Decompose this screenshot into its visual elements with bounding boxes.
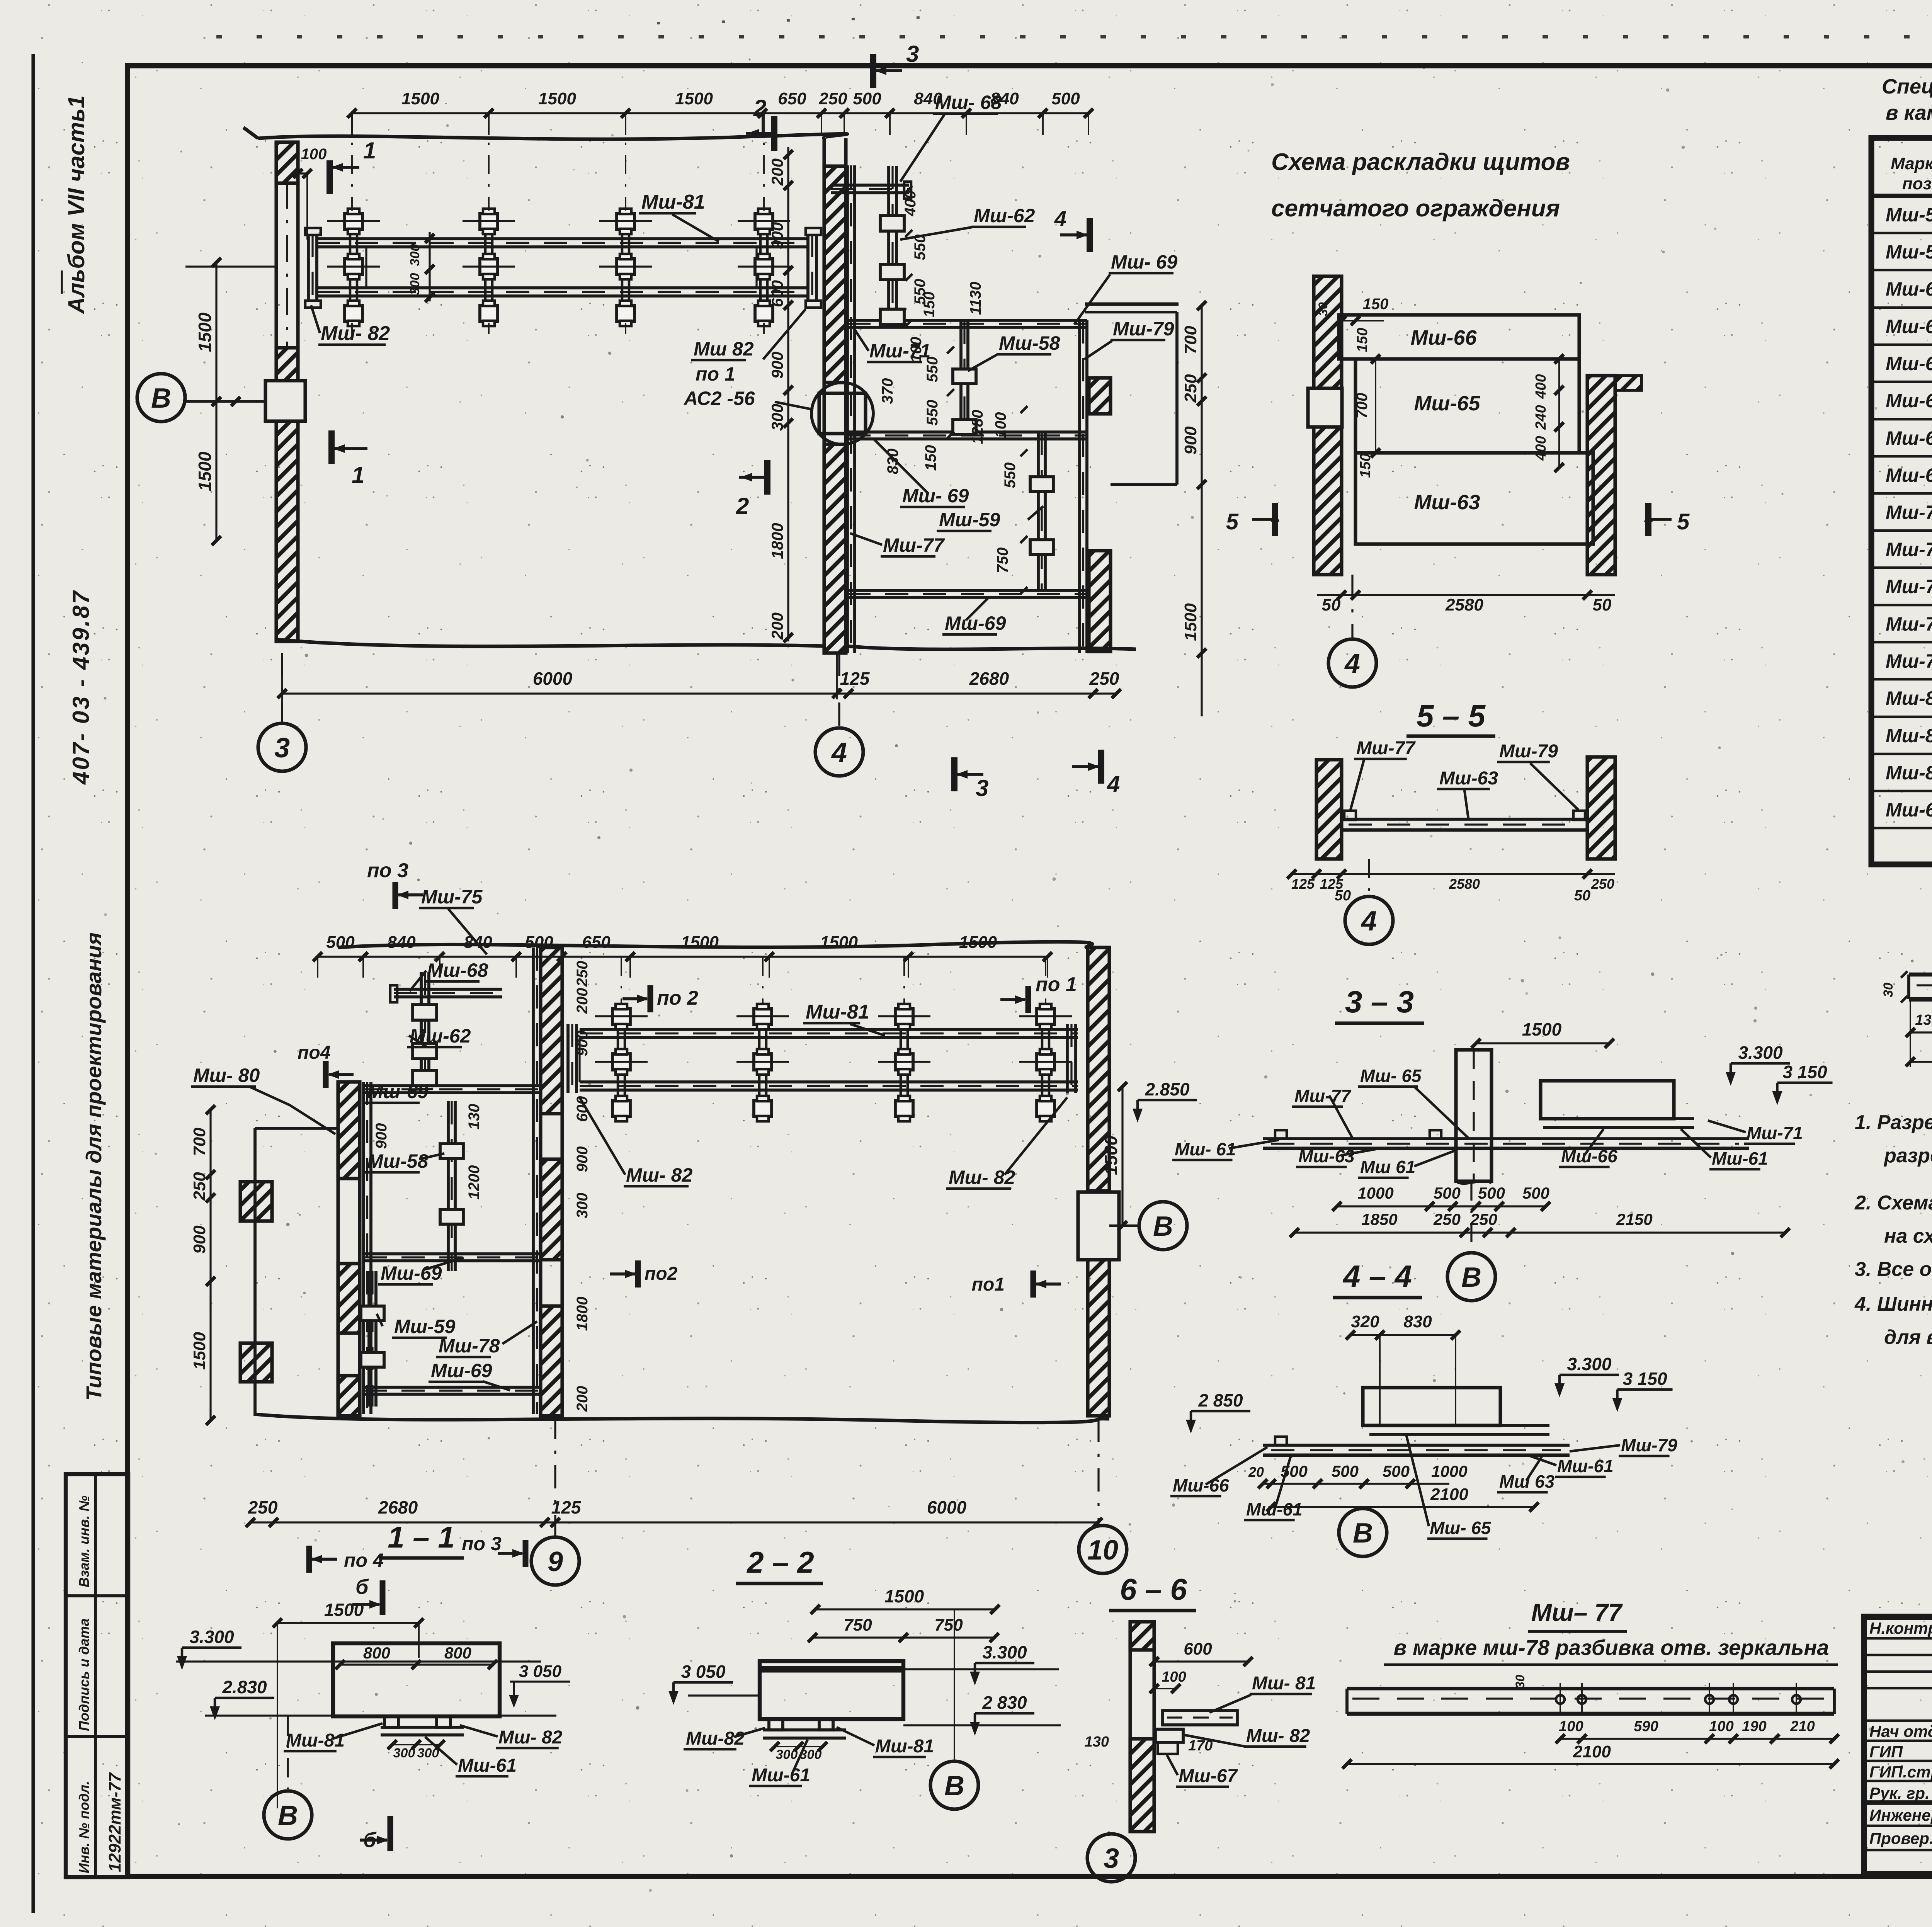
svg-text:650: 650: [778, 89, 806, 108]
bottom dim row drawing 1: [282, 692, 1116, 694]
svg-text:30: 30: [1316, 302, 1330, 316]
svg-text:100: 100: [1162, 1669, 1186, 1685]
svg-text:3 – 3: 3 – 3: [1345, 985, 1414, 1019]
svg-text:300: 300: [417, 1746, 439, 1760]
section 6-6 wall: [1128, 1622, 1132, 1832]
svg-text:750: 750: [844, 1616, 872, 1634]
svg-text:300: 300: [408, 244, 422, 266]
section 6-6 axis circle 3: [1108, 1832, 1110, 1836]
top dimension chain drawing 1: [352, 112, 1088, 114]
svg-text:700: 700: [1181, 326, 1200, 354]
svg-text:900: 900: [574, 1031, 591, 1056]
svg-text:в камере реактора и коридор: в камере реактора и коридоре у оси 4 и 9: [1886, 101, 1932, 124]
axis B circle: [137, 374, 185, 422]
svg-text:900: 900: [1181, 426, 1200, 455]
svg-text:Мш-61: Мш-61: [1246, 1499, 1303, 1519]
svg-text:1800: 1800: [574, 1297, 591, 1331]
svg-text:Мш-79: Мш-79: [1886, 650, 1932, 672]
svg-text:250: 250: [248, 1497, 278, 1517]
svg-text:Мш- 80: Мш- 80: [193, 1065, 260, 1086]
svg-text:по 3: по 3: [462, 1533, 502, 1555]
section flag 4 top right: [1087, 218, 1093, 252]
svg-text:130: 130: [1085, 1734, 1109, 1750]
svg-text:4: 4: [1107, 771, 1120, 797]
svg-text:650: 650: [582, 933, 611, 952]
svg-text:4: 4: [1344, 648, 1360, 679]
svg-text:Мш-63: Мш-63: [1886, 316, 1932, 337]
svg-text:АС2 -56: АС2 -56: [683, 388, 755, 409]
drawing 2 top dim chain: [318, 956, 1048, 958]
beam MSh-79 dimension row: [1910, 1031, 1932, 1033]
svg-text:370: 370: [879, 378, 896, 404]
svg-text:1500: 1500: [820, 933, 858, 952]
svg-text:Инженер: Инженер: [1869, 1806, 1932, 1824]
svg-text:500: 500: [1383, 1462, 1410, 1480]
fence bracket MSh-68 drawing 2: [394, 988, 502, 991]
insulators drawing 2: [617, 1005, 619, 1119]
svg-text:900: 900: [574, 1146, 591, 1172]
svg-text:Мш-65: Мш-65: [1886, 353, 1932, 374]
svg-text:300: 300: [574, 1193, 591, 1219]
svg-text:Мш-77: Мш-77: [883, 534, 945, 556]
svg-text:Мш-61: Мш-61: [752, 1765, 810, 1786]
svg-text:Мш-79: Мш-79: [1621, 1435, 1677, 1455]
section 3-3 column: [1456, 1050, 1492, 1181]
svg-text:Мш-61: Мш-61: [1712, 1148, 1768, 1168]
svg-text:Мш-59: Мш-59: [394, 1316, 456, 1337]
svg-text:1500: 1500: [675, 89, 713, 108]
svg-text:1500: 1500: [324, 1600, 364, 1620]
svg-text:550: 550: [912, 235, 929, 260]
svg-text:по1: по1: [972, 1274, 1005, 1295]
svg-text:Мш-62: Мш-62: [410, 1025, 471, 1047]
svg-text:200: 200: [768, 158, 786, 186]
bottom wavy boundary drawing 1: [277, 639, 824, 646]
wall axis 3 (left, hatched): [274, 142, 278, 641]
section flag 2 bottom: [764, 460, 770, 495]
plan drawing 1 : top boundary wavy wall line: [258, 134, 847, 139]
bus bridge rails drawing 1: [317, 237, 808, 240]
svg-text:Мш-69: Мш-69: [381, 1262, 442, 1284]
svg-text:400: 400: [902, 190, 919, 217]
svg-text:Мш-67: Мш-67: [1179, 1766, 1238, 1786]
svg-text:Мш-68: Мш-68: [427, 959, 488, 981]
extra speckles: [1264, 1075, 1268, 1079]
svg-text:по 4: по 4: [344, 1549, 384, 1571]
section 5-5 axis circle 4: [1368, 859, 1370, 896]
svg-text:900: 900: [373, 1123, 390, 1149]
section 2-2 panel: [760, 1661, 903, 1719]
section 4-4 panel: [1363, 1388, 1500, 1425]
svg-text:Мш-71: Мш-71: [1886, 502, 1932, 523]
svg-text:Подпись и дата: Подпись и дата: [76, 1618, 92, 1731]
svg-text:В: В: [278, 1800, 298, 1831]
svg-text:2580: 2580: [1445, 595, 1483, 614]
svg-text:900: 900: [768, 352, 786, 379]
svg-text:3 050: 3 050: [681, 1662, 726, 1682]
svg-text:6000: 6000: [533, 668, 573, 689]
svg-text:210: 210: [1790, 1718, 1815, 1735]
svg-text:1500: 1500: [195, 451, 215, 491]
svg-text:500: 500: [1434, 1184, 1461, 1202]
svg-text:1500: 1500: [1101, 1135, 1121, 1175]
svg-text:Схема раскладки щитов: Схема раскладки щитов: [1271, 149, 1570, 175]
detail circle AC2-56: [811, 383, 873, 444]
svg-text:50: 50: [1322, 595, 1341, 614]
svg-text:3.300: 3.300: [982, 1642, 1027, 1662]
section 4-4 deck: [1263, 1444, 1570, 1447]
svg-text:550: 550: [1002, 463, 1019, 488]
axis lines of insulator columns up to dim chain: [351, 113, 353, 211]
svg-text:Мш-75: Мш-75: [1886, 539, 1932, 560]
svg-text:Мш-61: Мш-61: [458, 1755, 517, 1776]
svg-text:12922тм-77: 12922тм-77: [105, 1772, 124, 1872]
section flag po3 (top): [393, 882, 398, 909]
left vertical dim chain drawing 2: [209, 1109, 211, 1420]
svg-text:250: 250: [1433, 1210, 1461, 1228]
svg-text:100: 100: [301, 146, 327, 163]
svg-text:1 – 1: 1 – 1: [388, 1520, 454, 1554]
section 1-1 small dims 300 300: [392, 1744, 440, 1745]
svg-text:Спецификация элементов к схе: Спецификация элементов к схеме расположе…: [1882, 75, 1932, 98]
svg-text:1500: 1500: [190, 1332, 209, 1370]
sidebar bottom table: [66, 1474, 128, 1877]
section 1-1 beam under panel: [384, 1716, 398, 1727]
svg-text:50: 50: [1574, 888, 1590, 904]
svg-text:Мш– 77: Мш– 77: [1531, 1599, 1623, 1626]
svg-text:Мш-69: Мш-69: [1886, 464, 1932, 486]
svg-text:500: 500: [1478, 1184, 1505, 1202]
svg-text:Мш- 68: Мш- 68: [935, 92, 1002, 113]
svg-text:9: 9: [548, 1546, 563, 1577]
svg-text:2150: 2150: [1616, 1210, 1652, 1228]
axis circle 4: [838, 653, 840, 729]
svg-text:сетчатого ограждения: сетчатого ограждения: [1271, 195, 1560, 222]
svg-text:Мш-80: Мш-80: [1886, 687, 1932, 709]
svg-text:по 1: по 1: [1036, 973, 1077, 996]
svg-text:550: 550: [924, 357, 941, 383]
svg-text:Мш-58: Мш-58: [367, 1150, 429, 1172]
fence post MSh-59: [1037, 432, 1040, 590]
svg-text:600: 600: [768, 280, 786, 307]
plan drawing 2 : top boundary wavy line: [338, 942, 1092, 947]
bracket MSh-82 right: [806, 234, 810, 302]
svg-text:100: 100: [992, 412, 1009, 438]
wall axis 10 (hatched) drawing 2: [1086, 947, 1089, 1416]
svg-text:6000: 6000: [927, 1497, 967, 1517]
svg-text:500: 500: [326, 933, 355, 952]
section 3-3 deck: [1263, 1137, 1749, 1140]
svg-text:Мш-82: Мш-82: [686, 1728, 745, 1749]
axis circle 9: [554, 1416, 556, 1537]
section 1-1 title row: [306, 1546, 312, 1573]
svg-text:20: 20: [1248, 1464, 1264, 1480]
svg-text:2 830: 2 830: [982, 1692, 1027, 1713]
svg-text:Мш- 82: Мш- 82: [949, 1167, 1015, 1188]
svg-text:10: 10: [1087, 1535, 1118, 1566]
svg-text:300: 300: [408, 273, 422, 295]
svg-text:2680: 2680: [969, 668, 1009, 689]
svg-text:Мш-61: Мш-61: [1557, 1456, 1614, 1476]
vertical dim 1500 (left): [215, 262, 217, 401]
section flag 3 bottom: [951, 757, 957, 791]
svg-text:1500: 1500: [401, 89, 439, 108]
svg-text:150: 150: [922, 445, 939, 471]
svg-text:200: 200: [768, 612, 786, 640]
svg-text:100: 100: [1559, 1718, 1583, 1735]
svg-text:3.300: 3.300: [1567, 1354, 1612, 1374]
svg-text:Мш- 65: Мш- 65: [1360, 1066, 1422, 1086]
svg-text:Мш-69: Мш-69: [945, 612, 1006, 634]
svg-text:4: 4: [1361, 906, 1377, 937]
section flag 3 top: [870, 54, 876, 88]
svg-text:240: 240: [1533, 405, 1549, 430]
svg-text:Мш-78: Мш-78: [439, 1335, 500, 1357]
svg-text:Мш-82: Мш-82: [1886, 762, 1932, 784]
svg-text:Мш-66: Мш-66: [1410, 326, 1477, 349]
svg-text:250: 250: [574, 961, 591, 987]
svg-text:2 850: 2 850: [1198, 1390, 1243, 1410]
section 1-1 axis B circle: [287, 1716, 289, 1789]
svg-text:Мш 82: Мш 82: [694, 338, 754, 360]
section 2-2 dims: [815, 1608, 995, 1610]
axis circle 3: [281, 653, 283, 724]
svg-text:1850: 1850: [1361, 1210, 1397, 1228]
svg-text:407- 03 - 439.87: 407- 03 - 439.87: [68, 590, 94, 785]
svg-text:3 050: 3 050: [519, 1662, 562, 1681]
svg-text:840: 840: [387, 933, 416, 952]
bottom dim row drawing 2: [250, 1521, 1098, 1523]
svg-text:Мш-65: Мш-65: [1414, 392, 1480, 415]
section 1-1 level lines: [176, 1660, 541, 1662]
svg-text:б: б: [355, 1575, 369, 1599]
svg-text:4 – 4: 4 – 4: [1342, 1259, 1412, 1293]
bottom wavy boundary drawing 2: [255, 1414, 1109, 1423]
svg-text:Мш-69: Мш-69: [367, 1081, 429, 1102]
svg-text:Марка: Марка: [1891, 154, 1932, 173]
svg-text:590: 590: [1634, 1718, 1658, 1735]
section flag 1 bottom: [328, 430, 335, 464]
svg-text:Мш- 65: Мш- 65: [1430, 1518, 1492, 1538]
svg-text:Мш-62: Мш-62: [974, 205, 1035, 226]
svg-text:750: 750: [934, 1616, 963, 1634]
svg-text:300: 300: [776, 1747, 798, 1762]
svg-text:130: 130: [1915, 1012, 1932, 1028]
section 3-3 dim 1500: [1476, 1042, 1609, 1044]
svg-text:2. Схема раскладки щитов се: 2. Схема раскладки щитов сетчатого ограж…: [1854, 1192, 1932, 1214]
svg-text:Мш- 69: Мш- 69: [1111, 251, 1177, 273]
svg-text:Взам. инв. №: Взам. инв. №: [76, 1495, 92, 1587]
svg-text:по 2: по 2: [657, 987, 698, 1009]
svg-text:Мш-77: Мш-77: [1886, 576, 1932, 597]
svg-text:Мш- 82: Мш- 82: [1246, 1726, 1310, 1746]
section flag 1 top: [327, 160, 333, 194]
svg-text:Мш-81: Мш-81: [641, 191, 705, 213]
svg-text:3.300: 3.300: [1738, 1043, 1783, 1063]
section 2-2 axis B circle: [954, 1609, 955, 1760]
svg-text:5: 5: [1226, 509, 1239, 534]
svg-text:2: 2: [753, 95, 766, 121]
left outer wall (MSh-80 zone) drawing 2: [253, 1128, 257, 1416]
svg-text:3: 3: [1104, 1843, 1119, 1874]
section 1-1 panel: [333, 1643, 500, 1716]
column block on axis B: [265, 381, 305, 421]
insulators drawing 1: [349, 209, 352, 324]
svg-text:3: 3: [906, 41, 919, 67]
svg-text:В: В: [944, 1771, 964, 1801]
beam MSh-79 body: [1909, 973, 1932, 976]
svg-text:600: 600: [1184, 1640, 1212, 1658]
svg-text:Мш-58: Мш-58: [1886, 204, 1932, 226]
right side panel outline (MSh-79/80 zone): [1085, 302, 1179, 306]
svg-text:1500: 1500: [1522, 1019, 1562, 1039]
section 5-5 beam: [1342, 818, 1587, 821]
svg-text:Мш-59: Мш-59: [939, 509, 1000, 531]
axis B circle drawing 2: [1109, 1225, 1139, 1227]
svg-text:Мш-62: Мш-62: [1886, 278, 1932, 300]
svg-text:2100: 2100: [1430, 1485, 1468, 1504]
svg-text:Н.контр: Н.контр: [1869, 1619, 1932, 1637]
schema axis circle 4: [1351, 575, 1353, 640]
svg-text:Мш-69: Мш-69: [431, 1360, 492, 1381]
fence post MSh-62 drawing 2: [420, 972, 423, 1086]
svg-text:830: 830: [884, 449, 901, 475]
svg-text:3. Все отверстия ф 11мм: 3. Все отверстия ф 11мм: [1855, 1258, 1932, 1281]
section 4-4 top dims: [1350, 1334, 1456, 1336]
svg-text:3: 3: [976, 775, 988, 801]
vertical dim chain x=2040: [787, 147, 789, 641]
svg-text:Альбом VII часть1: Альбом VII часть1: [63, 95, 89, 315]
po1 flag top: [1026, 986, 1031, 1013]
svg-text:750: 750: [994, 548, 1011, 573]
axis circle 10: [1097, 1419, 1099, 1526]
svg-text:Мш-63: Мш-63: [1439, 768, 1498, 789]
svg-text:Мш-59: Мш-59: [1886, 241, 1932, 263]
svg-text:320: 320: [1351, 1312, 1379, 1331]
svg-text:Инв. № подл.: Инв. № подл.: [76, 1781, 92, 1873]
po2 flag top: [648, 985, 653, 1012]
svg-text:1800: 1800: [768, 523, 786, 559]
corridor fence rails drawing 1: [846, 165, 849, 653]
spec table grid: [1871, 138, 1932, 864]
svg-text:1200: 1200: [466, 1165, 483, 1200]
svg-text:700: 700: [1354, 393, 1371, 419]
vertical dim 1500 drawing 2: [1121, 1087, 1123, 1226]
svg-text:100: 100: [1709, 1718, 1733, 1735]
svg-text:Мш- 82: Мш- 82: [626, 1164, 692, 1186]
svg-text:1000: 1000: [1431, 1462, 1467, 1480]
svg-text:250: 250: [818, 89, 847, 108]
svg-text:125: 125: [1291, 876, 1315, 892]
svg-text:для варианта с 2: для варианта с 2: [1884, 1326, 1932, 1349]
svg-text:Мш- 69: Мш- 69: [902, 485, 969, 507]
svg-text:1500: 1500: [884, 1586, 924, 1606]
svg-text:Мш-78: Мш-78: [1886, 613, 1932, 635]
svg-text:1: 1: [363, 138, 376, 163]
svg-text:250: 250: [1591, 876, 1614, 892]
svg-text:900: 900: [768, 222, 786, 249]
300x300 vertical dim between rails: [429, 232, 430, 301]
svg-text:600: 600: [574, 1096, 591, 1122]
svg-text:Мш-67: Мш-67: [1886, 799, 1932, 821]
fence post MSh-58: [959, 321, 963, 435]
svg-text:200: 200: [574, 1386, 591, 1412]
section 6-6 dims: [1154, 1660, 1248, 1662]
beam MSh-77 body: [1347, 1687, 1834, 1690]
schema panels: [1339, 315, 1579, 359]
svg-text:Мш-71: Мш-71: [1747, 1123, 1803, 1143]
svg-text:700: 700: [190, 1128, 209, 1156]
section 1-1 dim 1500: [277, 1622, 419, 1624]
svg-text:в марке мш-78 разбивка отв.: в марке мш-78 разбивка отв. зеркальна: [1394, 1635, 1829, 1660]
section 4-4 axis circle B: [1339, 1509, 1387, 1556]
scan speckle line top edge: [216, 35, 1932, 38]
svg-text:Мш-77: Мш-77: [1294, 1086, 1352, 1106]
svg-text:1500: 1500: [681, 933, 719, 952]
bracket MSh-82 left: [307, 234, 310, 302]
svg-text:1500: 1500: [1181, 603, 1200, 641]
svg-text:ГИП: ГИП: [1869, 1743, 1903, 1761]
svg-text:50: 50: [1335, 888, 1351, 904]
svg-text:Мш-81: Мш-81: [806, 1001, 869, 1023]
svg-text:Мш-79: Мш-79: [1499, 741, 1558, 762]
svg-text:190: 190: [1742, 1718, 1766, 1735]
svg-text:250: 250: [1089, 668, 1119, 689]
svg-text:3: 3: [274, 733, 290, 764]
sheet frame: [31, 54, 35, 1913]
svg-text:Мш- 82: Мш- 82: [498, 1727, 563, 1748]
svg-text:Мш-81: Мш-81: [1886, 725, 1932, 747]
svg-text:900: 900: [190, 1225, 209, 1254]
svg-text:250: 250: [1470, 1210, 1497, 1228]
svg-text:250: 250: [1181, 374, 1200, 403]
title block: [1864, 1617, 1932, 1874]
svg-text:В: В: [1461, 1262, 1481, 1293]
section 6-6 beam: [1163, 1711, 1237, 1725]
svg-text:Нач отд: Нач отд: [1869, 1722, 1932, 1740]
svg-text:Мш-81: Мш-81: [875, 1736, 934, 1757]
svg-text:4: 4: [1054, 206, 1066, 231]
svg-text:300: 300: [768, 404, 786, 431]
section 5-5 walls: [1316, 760, 1342, 859]
svg-text:Рук. гр.: Рук. гр.: [1869, 1784, 1930, 1802]
svg-text:800: 800: [363, 1644, 390, 1662]
wall axis 9 (hatched) drawing 2: [539, 947, 542, 1416]
svg-text:2580: 2580: [1449, 876, 1480, 892]
svg-text:Мш- 61: Мш- 61: [1175, 1139, 1236, 1159]
svg-text:150: 150: [921, 292, 938, 318]
svg-text:2100: 2100: [1573, 1742, 1611, 1761]
svg-text:4. Шинные мосты в камере р: 4. Шинные мосты в камере реактора и кори…: [1854, 1293, 1932, 1315]
svg-text:1280: 1280: [969, 410, 986, 444]
svg-text:В: В: [151, 383, 171, 414]
svg-text:В: В: [1153, 1211, 1173, 1242]
section 6-6 bracket: [1155, 1729, 1183, 1742]
svg-text:3 150: 3 150: [1782, 1062, 1827, 1082]
small dim ticks texture in corridor: [905, 186, 912, 193]
svg-text:2.850: 2.850: [1145, 1079, 1190, 1099]
svg-text:Мш-66: Мш-66: [1173, 1475, 1229, 1495]
svg-text:по 3: по 3: [367, 859, 408, 882]
section 3-3 axis circle B: [1470, 1181, 1472, 1253]
svg-text:Мш-81: Мш-81: [286, 1730, 345, 1751]
svg-text:Мш-68: Мш-68: [1886, 427, 1932, 449]
svg-text:5 – 5: 5 – 5: [1417, 699, 1486, 733]
svg-text:2 – 2: 2 – 2: [746, 1545, 814, 1579]
fence post MSh-62: [887, 166, 890, 321]
svg-text:500: 500: [853, 89, 881, 108]
svg-text:1. Разрезы 1-1 4-4 для шинн: 1. Разрезы 1-1 4-4 для шинного моста по …: [1855, 1111, 1932, 1134]
